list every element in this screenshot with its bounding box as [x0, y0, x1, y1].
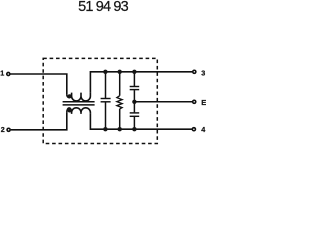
svg-text:1: 1	[0, 69, 4, 78]
capacitor C1 plates	[101, 98, 111, 100]
wire choke to bottom-right rail	[90, 114, 192, 129]
terminal 4 circle	[192, 128, 195, 131]
part number label 51 94 93	[0, 0, 206, 15]
capacitor C1 bottom lead	[105, 102, 107, 129]
wire terminal 1 to choke	[10, 74, 66, 95]
wire terminal 2 to choke	[11, 112, 67, 129]
common-mode choke L1 bottom winding	[67, 108, 91, 114]
junction dot top C2	[132, 70, 136, 74]
resistor R1 bottom lead	[119, 109, 121, 129]
junction dot bottom C3	[132, 127, 136, 131]
terminal E circle	[193, 100, 196, 103]
wire choke to top-right rail	[90, 72, 192, 93]
enclosure dashed box	[43, 58, 157, 143]
terminal 3 circle	[193, 70, 196, 73]
capacitor C2 plates	[130, 86, 140, 88]
choke core bar upper	[63, 101, 95, 103]
capacitor C1 top lead	[105, 72, 107, 98]
resistor R1 top lead	[119, 72, 121, 96]
bottom winding polarity dot	[68, 108, 72, 112]
svg-text:4: 4	[201, 125, 205, 134]
svg-text:E: E	[201, 98, 206, 107]
svg-text:3: 3	[201, 69, 205, 78]
junction dot top R1	[118, 70, 122, 74]
choke core bar lower	[63, 104, 95, 106]
capacitor C2 top lead	[133, 72, 135, 86]
svg-text:2: 2	[1, 125, 5, 134]
capacitor C3 bottom lead	[133, 117, 135, 129]
capacitor C3 plates	[130, 112, 140, 114]
top winding polarity dot	[68, 94, 72, 98]
junction dot top C1	[103, 70, 107, 74]
resistor R1 zigzag	[117, 96, 122, 109]
junction dot bottom C1	[103, 127, 107, 131]
capacitor C2 bottom lead to midpoint	[133, 90, 135, 112]
common-mode choke L1 top winding	[67, 93, 91, 101]
wire midpoint to terminal E	[134, 101, 192, 103]
terminal 1 circle	[7, 72, 10, 75]
terminal 2 circle	[7, 128, 10, 131]
junction dot bottom R1	[118, 127, 122, 131]
junction dot midpoint node	[132, 100, 136, 104]
